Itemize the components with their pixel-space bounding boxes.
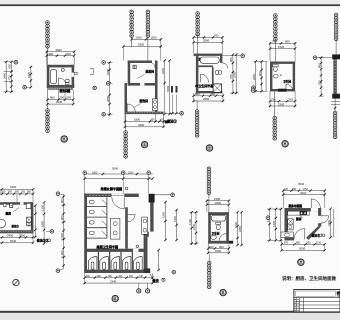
plan 3 right exterior door swing: [222, 63, 228, 69]
svg-text:450: 450: [151, 119, 156, 122]
svg-text:3300: 3300: [92, 171, 98, 174]
detail sketch left of plan 3: bar 1: [171, 86, 173, 93]
plan 1 door swing arc: [59, 78, 67, 86]
svg-text:卫生间: 卫生间: [283, 80, 291, 84]
svg-text:900: 900: [219, 245, 224, 249]
plan 3 bottom dimension line 2: [194, 100, 223, 102]
plan 2 bottom wall: [125, 112, 164, 115]
plan 6 top-right shaft box: [26, 203, 31, 208]
svg-text:1800: 1800: [40, 220, 44, 227]
svg-text:2100: 2100: [192, 223, 196, 230]
svg-text:做法①: 做法①: [11, 224, 20, 228]
plan 7 bottom axis stubs: [138, 283, 140, 289]
axis line chain B: [147, 36, 149, 60]
svg-text:2250: 2250: [238, 225, 242, 232]
svg-text:1500: 1500: [215, 249, 222, 253]
plan 7 top dimension line 1: [84, 173, 152, 175]
plan 8 left wall: [208, 212, 211, 243]
plan 9 bottom dimension line 1: [282, 243, 325, 245]
axis bubble chain below plan 2: [124, 131, 128, 158]
svg-text:900: 900: [60, 198, 64, 203]
title block cell dots row 3: [295, 306, 296, 307]
plan 8 bottom dimension line 1: [208, 247, 229, 249]
plan 1 bottom wall: [47, 85, 74, 88]
plan 9 right door swing: [321, 215, 328, 217]
plan 4 bottom dimension line 1: [270, 100, 295, 102]
plan 5 top corner block: [332, 54, 340, 59]
svg-text:底层卫生间平面: 底层卫生间平面: [97, 244, 119, 249]
svg-text:800: 800: [195, 92, 200, 96]
svg-text:500: 500: [67, 95, 72, 99]
plan 6 right wall: [31, 202, 34, 233]
plan 7 right room sink counter: [142, 217, 148, 234]
plan 4 door swing: [286, 84, 293, 91]
plan 8 toilet: [216, 222, 221, 224]
plan 7 wash counter middle: [110, 218, 120, 239]
svg-text:750: 750: [8, 75, 12, 80]
axis bubble chain below plan 1: [46, 109, 50, 133]
title block row line 3: [294, 304, 340, 306]
plan 7 upper stall toilets: [89, 200, 94, 204]
plan 8 left dimension column 2: [195, 212, 197, 245]
plan 9 title circle: [298, 259, 304, 265]
axis bubble right of plan 6: [50, 230, 54, 234]
plan 3 right dimension column 2: [235, 55, 237, 93]
bracket left of plan 2: [90, 68, 93, 70]
svg-text:750: 750: [317, 80, 321, 85]
plan 4 top dimension line 2: [270, 48, 295, 50]
svg-text:900: 900: [8, 63, 12, 68]
plan 3 bathtub: [200, 57, 219, 63]
plan 7 bottom stall 2: [100, 257, 109, 270]
plan 7 bottom-right corner block: [144, 268, 151, 273]
title block inner top-row margin: [296, 291, 336, 296]
svg-text:做法: 做法: [152, 278, 160, 283]
plan 3 interior door swing: [201, 74, 209, 82]
plan 7 right-bottom callout leader: [150, 274, 153, 280]
plan 7 bottom stall 4: [122, 257, 130, 270]
plan 6 arrow line: [13, 208, 19, 212]
title block cell dots row 2: [295, 303, 296, 304]
plan 3 top dimension line 2: [194, 41, 223, 43]
svg-text:1500: 1500: [151, 36, 158, 40]
plan 7 middle wall: [125, 207, 128, 248]
plan 9 right door gap: [318, 216, 321, 223]
svg-text:2250: 2250: [161, 67, 165, 74]
plan 6 bottom dimension line 1: [0, 236, 33, 238]
tall chain bottom bubble: [56, 269, 60, 273]
svg-text:900: 900: [317, 63, 321, 68]
svg-text:1200: 1200: [173, 215, 177, 222]
axis bubble left-bottom of plan 4: [251, 89, 255, 93]
plan 6 top wall: [0, 202, 32, 205]
svg-text:600: 600: [15, 191, 20, 194]
plan 1 top dimension line 2: [47, 55, 74, 57]
axis bubble right of plan 7 top wall: [171, 193, 175, 197]
plan 6 crossed fixture box: [27, 217, 32, 222]
plan 4 right wall: [293, 62, 295, 92]
plan 9 right wall: [318, 208, 321, 226]
svg-text:1800: 1800: [134, 118, 141, 122]
plan 6 right dimension column 1: [34, 205, 36, 237]
svg-text:800: 800: [285, 40, 290, 44]
svg-text:2200: 2200: [128, 171, 134, 174]
svg-text:盥洗间: 盥洗间: [140, 99, 149, 103]
plan 3 top dimension line 1: [194, 36, 223, 38]
svg-text:600: 600: [209, 245, 214, 249]
svg-text:厨房布置图: 厨房布置图: [289, 204, 303, 208]
plan 7 right wall lower: [144, 237, 148, 273]
plan 2 arrow line upper: [137, 75, 145, 79]
svg-text:900: 900: [60, 232, 64, 237]
axis stub line: [317, 57, 334, 59]
axis bubble chain above plan 1: [46, 21, 50, 48]
axis line chain A: [131, 36, 133, 47]
svg-text:5200: 5200: [10, 185, 17, 189]
plan 9 top wall door gap: [311, 208, 319, 211]
svg-text:1400: 1400: [272, 220, 276, 227]
tall chain ticks: [62, 195, 64, 197]
plan 9 left dimension column 2: [275, 209, 277, 240]
axis bubble chain above plan 4: [274, 14, 278, 41]
plan 3 shaft box with X: [213, 84, 221, 93]
plan 3 top wall: [194, 54, 223, 56]
plan 2 bottom dimension line 2: [125, 126, 164, 128]
plan 7 top wall stub to axis bubble at right: [155, 194, 171, 196]
detail dimension line with bubble: [165, 112, 180, 114]
plan 2 right wall: [155, 61, 158, 115]
plan 9 left dimension column 1: [269, 209, 271, 240]
axis line: [274, 40, 276, 62]
plan 9 top dimension line 1: [283, 190, 325, 192]
axis bubble chain A above plan 2: [130, 10, 134, 37]
svg-text:3000: 3000: [299, 247, 306, 251]
plan 6 dim extension stub: [16, 195, 18, 203]
svg-text:850: 850: [296, 242, 301, 245]
top sheet rule: [0, 4, 340, 6]
svg-text:560: 560: [211, 92, 216, 96]
plan 7 top-right corner tower: [149, 194, 155, 203]
plan 2 middle wall door gap: [140, 83, 145, 86]
axis bubble chain above plan 8: [207, 167, 211, 194]
svg-text:2600: 2600: [56, 48, 63, 52]
plan 9 arrow line: [300, 215, 304, 218]
plan 3 right dimension column 1: [232, 55, 234, 93]
plan 8 right dimension column 1: [237, 212, 239, 245]
plan 7 top wall door gap: [112, 194, 125, 197]
plan 8 title circle: [220, 289, 226, 295]
plan 3 corner fixture box: [199, 58, 202, 61]
tall chain top bubble: [56, 192, 60, 196]
axis bubble left of plan 9: [266, 216, 270, 220]
plan 4 title circle: [282, 141, 288, 147]
svg-text:5400: 5400: [166, 85, 170, 92]
plan 3 title circle: [206, 145, 212, 151]
plan 2 bottom dimension line 1: [125, 121, 164, 123]
svg-text:1120: 1120: [316, 242, 322, 245]
plan 1 toilet: [65, 79, 69, 82]
plan 9 bottom dimension line 2: [282, 249, 325, 251]
title block cell dots row 1: [295, 299, 296, 300]
plan 2 top dimension line 1: [132, 38, 161, 40]
plan 7 bottom dimension line 1: [84, 277, 152, 279]
plan 9 top dimension line 2: [283, 194, 325, 196]
plan 9 fixture with circle: [288, 224, 294, 230]
svg-text:2850: 2850: [106, 95, 110, 102]
plan 2 left dimension column: [109, 63, 111, 117]
plan 7 divider wall above bottom stalls: [87, 249, 144, 252]
svg-text:1500: 1500: [278, 45, 285, 49]
axis line below plan 1: [47, 88, 49, 109]
svg-text:做法②: 做法②: [166, 119, 177, 124]
plan 3 toilet: [215, 70, 218, 74]
svg-text:900: 900: [229, 57, 233, 62]
svg-text:5200: 5200: [10, 239, 17, 243]
plan 2 right dimension column: [164, 61, 166, 115]
svg-text:做法②③: 做法②③: [36, 237, 49, 242]
plan 7 title circle: [112, 295, 118, 301]
svg-text:2600: 2600: [56, 100, 63, 104]
plan 9 top wall: [285, 208, 321, 211]
title block row line 1: [294, 297, 340, 299]
plan 7 bottom axis bubble 1: [137, 289, 141, 293]
svg-text:3410: 3410: [300, 191, 307, 195]
axis line below plan 4: [274, 91, 276, 116]
plan 4 top dimension line 1: [270, 42, 295, 44]
plan 4 sink: [273, 74, 278, 78]
title block row line 2: [294, 300, 340, 302]
axis bubble chain below plan 8: [207, 261, 211, 288]
plan 7 header label bubble: [125, 187, 128, 190]
plan 4 bottom wall: [270, 89, 295, 91]
plan 8 top wall: [208, 212, 229, 215]
plan 2 lower door swing: [127, 104, 135, 112]
tall chain line: [63, 194, 65, 268]
svg-text:男厕女厕平面图: 男厕女厕平面图: [100, 186, 123, 191]
plan 6 top wall door gap: [20, 202, 24, 205]
plan 3 right wall upper: [220, 54, 222, 68]
plan 1 sink: [61, 68, 64, 71]
plan 5 vertical dimension line: [320, 58, 322, 97]
axis line below plan 8: [208, 254, 210, 262]
plan 2 middle wall: [128, 83, 158, 86]
svg-text:2340: 2340: [110, 280, 117, 284]
svg-text:3300: 3300: [138, 123, 145, 127]
svg-text:900: 900: [196, 34, 201, 38]
plan 7 upper stall door leaves: [102, 200, 107, 205]
plan 7 bottom wall: [84, 270, 143, 273]
svg-text:975: 975: [284, 242, 289, 245]
plan 7 entry door swing (top): [112, 197, 124, 209]
svg-text:900: 900: [49, 52, 54, 56]
plan 8 right dimension column 2: [241, 212, 243, 245]
axis bubble at (24.6,87.2): [23, 85, 27, 89]
svg-text:2560: 2560: [203, 39, 210, 43]
plan 7 centre caption bubble: [136, 245, 139, 248]
plan 5 stub marks below: [331, 101, 340, 103]
plan 7 axis bubbles on top dim: [83, 171, 87, 175]
svg-text:700: 700: [284, 188, 289, 191]
axis line: [335, 39, 337, 54]
svg-text:厨房: 厨房: [6, 211, 12, 215]
plan 4 left dimension column: [255, 62, 257, 92]
svg-text:850: 850: [307, 242, 312, 245]
plan 9 bottom wall: [285, 238, 295, 241]
plan 8 sink: [211, 235, 217, 239]
title block column line 2: [299, 298, 301, 312]
plan 1 title circle: [61, 136, 67, 142]
plan 1 left wall: [47, 65, 50, 88]
plan 6 top-left wall mark: [3, 204, 6, 207]
svg-text:1350: 1350: [40, 204, 44, 211]
axis bubble chain below plan 4: [273, 116, 277, 140]
plan 7 upper stall block partitions: [106, 197, 108, 238]
plan 7 axis extension lines: [84, 174, 86, 193]
title block column line 1: [296, 298, 298, 312]
svg-text:2100: 2100: [327, 219, 331, 226]
plan 1 bottom dimension line 1: [47, 99, 73, 101]
plan 7 bottom stall partitions: [97, 252, 99, 270]
plan 4 top wall: [270, 62, 295, 64]
plan 8 bathtub: [211, 215, 225, 221]
plan 1 right wall: [72, 65, 75, 88]
plan 8 left dimension column 1: [191, 212, 193, 245]
title block dark dash under corner cell: [337, 295, 340, 296]
axis line below plan 3: [196, 100, 198, 111]
title block column line 3: [302, 298, 304, 312]
svg-text:9240: 9240: [112, 167, 119, 171]
svg-text:900: 900: [21, 234, 26, 238]
plan 1 bottom window band: [48, 87, 73, 89]
plan 2 upper-left wall: [128, 61, 131, 86]
plan 1 inner-left dimension line: [30, 67, 32, 87]
axis line chain: [197, 36, 199, 54]
plan 6 small box on top wall: [10, 203, 13, 207]
axis bubble chain above plan 5: [334, 13, 338, 40]
plan 7 bottom axis bubble 2: [145, 289, 149, 293]
plan 1 door gap in right wall: [72, 73, 75, 77]
plan 8 bottom dimension line 2: [208, 252, 229, 254]
plan 1 left dimension column: [5, 62, 7, 92]
plan 6 sink fixture box: [27, 222, 32, 225]
plan 6 bottom wall: [0, 230, 33, 233]
plan 1 bottom dimension line 2: [47, 103, 73, 105]
plan 5 left wall: [333, 59, 336, 93]
plan 6 bathtub oval (clipped by sheet edge): [0, 219, 6, 228]
svg-text:750: 750: [271, 98, 276, 102]
axis bubbles left of plan 2: [102, 61, 106, 65]
plan 8 bottom-right black stub: [229, 241, 233, 244]
svg-text:1800: 1800: [215, 201, 222, 205]
svg-text:淋浴间: 淋浴间: [146, 69, 155, 73]
plan 3 inner wall horizontal: [198, 65, 213, 67]
axis bubble chain B above plan 2: [146, 10, 150, 37]
svg-text:900: 900: [60, 215, 64, 220]
axis line below plan 2: [125, 114, 127, 131]
plan 1 dim extension lines: [46, 51, 48, 65]
plan 7 right-bottom callout circle: [162, 278, 165, 281]
axis bubble chain below plan 3: [195, 110, 199, 137]
title block outer border: [294, 290, 340, 312]
svg-text:2800: 2800: [252, 73, 256, 80]
plan 7 bottom stall 5: [134, 257, 143, 270]
plan 8 top dimension line 1: [207, 200, 229, 202]
plan 4 left wall: [270, 62, 272, 92]
plan 2 arrow line lower: [134, 104, 142, 108]
svg-text:2250: 2250: [106, 68, 110, 75]
plan 2 floor drain column box: [133, 65, 136, 68]
plan 9 sink counter bottom-left: [281, 232, 294, 238]
plan 9 chamfer wall: [306, 226, 321, 240]
plan 7 bottom stall 3: [111, 257, 120, 270]
bottom sheet rule: [0, 311, 340, 313]
svg-text:700: 700: [272, 40, 277, 44]
plan 2 washer box: [152, 99, 157, 111]
axis line: [208, 192, 210, 213]
svg-text:1800: 1800: [27, 71, 31, 78]
axis bubble left of plan 1: [14, 60, 18, 64]
svg-text:做法⑤: 做法⑤: [311, 233, 321, 237]
svg-text:700: 700: [66, 52, 71, 56]
plan 8 outer-left dimension line: [176, 210, 178, 240]
plan 4 bottom black block: [278, 89, 287, 92]
plan 8 top dimension line 2: [207, 204, 229, 206]
svg-text:3540: 3540: [298, 182, 305, 186]
plan 9 left wall: [285, 208, 288, 240]
axis bubble left of plan 8: [172, 270, 176, 274]
axis bubble chain above plan 3: [196, 12, 200, 36]
plan 9 bottom door swing: [304, 229, 306, 240]
plan 7 bottom dimension line 2: [84, 282, 152, 284]
axis bubble chain below plan 5: [333, 111, 337, 138]
svg-text:2560: 2560: [203, 97, 210, 101]
plan 8 door swing: [219, 234, 226, 241]
title block row line 4: [294, 308, 340, 310]
plan 2 section mark block: [165, 120, 168, 123]
plan 9 counter with stove: [288, 211, 310, 215]
plan 7 right wall upper: [150, 203, 153, 232]
plan 2 upper door swing: [152, 63, 155, 68]
svg-text:900: 900: [50, 95, 55, 99]
axis bubble left of plan 5: [313, 56, 317, 60]
svg-text:2400: 2400: [7, 234, 14, 238]
plan 8 bottom wall: [208, 241, 229, 244]
plan 1 exterior door box: [74, 72, 77, 74]
plan 7 bottom stall 1: [88, 257, 97, 270]
svg-text:900: 900: [60, 250, 64, 255]
plan 2 lower-left wall: [125, 83, 128, 114]
plan 7 top wall: [84, 194, 139, 197]
detail sketch bar 2: [176, 86, 178, 93]
plan 1 bathtub: [50, 69, 56, 83]
svg-text:说明：厨房、卫生间地面做: 说明：厨房、卫生间地面做: [282, 275, 336, 282]
plan 3 left wall: [196, 54, 199, 94]
plan 9 left dimension column 3: [280, 209, 282, 240]
plan 6 top dimension line 1: [0, 188, 33, 190]
plan 9 top-right door swing: [310, 199, 312, 208]
plan 7 right room door swing: [128, 214, 135, 216]
plan 6 top dimension line 2: [0, 193, 33, 195]
svg-text:760: 760: [214, 34, 219, 38]
svg-text:750: 750: [288, 98, 293, 102]
plan 9 right dimension column: [330, 209, 332, 238]
plan 7 top dimension line 2: [84, 178, 152, 180]
axis bubble right of plan 3: [241, 54, 245, 58]
plan 6 right dimension column 2: [43, 202, 45, 243]
svg-text:2400: 2400: [2, 72, 6, 79]
plan 7 divider door gap: [133, 249, 139, 252]
svg-text:3300: 3300: [138, 43, 145, 47]
